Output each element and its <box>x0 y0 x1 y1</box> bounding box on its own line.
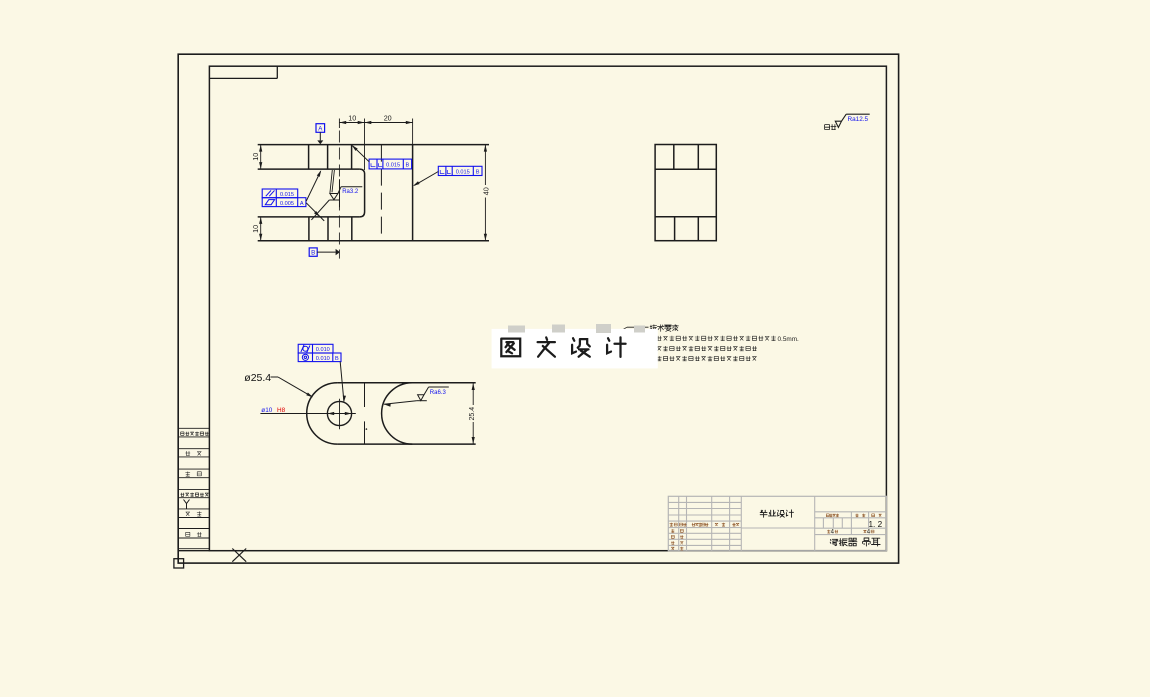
side view top band verticals <box>674 145 699 170</box>
watermark 图文设计 <box>501 337 625 357</box>
bottom view bottom edge <box>337 443 475 445</box>
svg-text:25.4: 25.4 <box>469 407 476 421</box>
label ø25.4 <box>244 372 271 384</box>
title block header 阶段标记 <box>826 514 839 517</box>
svg-text:H8: H8 <box>277 407 286 414</box>
dimension 10 lower left <box>259 217 262 241</box>
left margin Y mark <box>184 500 190 509</box>
FCF2 leader <box>352 145 370 162</box>
feature control frame 3 <box>438 166 482 175</box>
left margin table text row1 <box>181 432 209 436</box>
svg-text:0.010: 0.010 <box>316 356 330 362</box>
FCF3 leader <box>413 172 438 187</box>
hole circle ø10 <box>327 401 351 425</box>
watermark gray fragments <box>508 324 645 333</box>
FCF4 leader <box>340 362 346 403</box>
ø25.4 leader <box>271 377 314 397</box>
front view slot rounded right edge <box>360 169 365 217</box>
surface roughness symbol Ra3.2 <box>329 179 362 207</box>
title block signer row 4 <box>671 547 683 550</box>
front view centerline right <box>380 145 382 241</box>
svg-text:40: 40 <box>481 187 490 195</box>
outer border frame <box>178 54 898 563</box>
front view centerline hole axis <box>338 131 340 259</box>
hole dim arrows <box>327 412 351 415</box>
dimension 25.4 right <box>472 383 475 444</box>
front view lower inner edge <box>258 216 360 218</box>
title block part name 减振器 吊耳 <box>830 538 880 546</box>
tech req line 3 <box>651 356 757 361</box>
front view top edge <box>258 144 489 146</box>
front view top band verticals <box>309 145 352 170</box>
title block header row brown labels <box>670 523 740 526</box>
left margin table text row3 <box>185 472 201 477</box>
grid reference box top-left <box>209 66 277 78</box>
left margin table text row6 <box>186 532 202 536</box>
FCF1 leader up <box>306 170 321 201</box>
front view bottom band verticals <box>309 217 352 241</box>
svg-text:10: 10 <box>251 225 260 233</box>
svg-text:10: 10 <box>348 114 356 123</box>
slot wall line 1 <box>330 170 332 193</box>
tech req title 技术要求 <box>650 325 678 332</box>
left margin table text row2 <box>185 451 201 455</box>
title block signer row 3 <box>671 541 683 544</box>
title block text 毕业设计 <box>760 510 793 518</box>
tech req line 1 <box>651 336 799 343</box>
front view right web vertical <box>412 145 414 241</box>
feature control frame 2 <box>369 159 412 169</box>
datum B leader <box>317 249 340 255</box>
side view bottom band verticals <box>675 217 699 241</box>
title block signer row 2 <box>671 535 683 538</box>
svg-text:B: B <box>406 163 410 169</box>
title block header 比例 <box>872 514 882 517</box>
dimension text 25.4 <box>469 407 476 421</box>
general roughness note 其余 <box>825 124 837 129</box>
Ra12.5 text <box>848 116 869 123</box>
svg-text:B: B <box>476 170 480 176</box>
hole label H8 <box>277 407 286 414</box>
tech req line 2 <box>651 346 758 351</box>
front view bottom edge <box>258 240 489 242</box>
title block 共4张 <box>827 530 838 536</box>
bottom view left arc <box>307 383 338 444</box>
title block grid <box>668 496 886 550</box>
bottom view right arc <box>382 383 413 444</box>
svg-text:Ra3.2: Ra3.2 <box>342 189 359 195</box>
dimension text 10 upper left <box>251 153 260 161</box>
datum B box <box>309 248 317 257</box>
title block scale 1:2 <box>869 520 883 529</box>
svg-text:B: B <box>335 356 339 362</box>
corner centering square bottom-left <box>174 559 184 568</box>
general roughness symbol <box>835 114 869 127</box>
side view horizontal edges <box>655 169 716 217</box>
title block signer row 1 <box>671 529 683 532</box>
Ra6.3 text <box>430 390 447 396</box>
side view outline <box>655 145 716 241</box>
svg-text:0.005: 0.005 <box>280 201 294 207</box>
svg-text:B: B <box>311 250 315 257</box>
surface roughness symbol Ra6.3 <box>384 387 449 407</box>
left margin table text row5 <box>186 511 202 516</box>
svg-text:Ra6.3: Ra6.3 <box>430 390 447 396</box>
inner border bottom extension left <box>178 550 209 552</box>
left margin table text row4 <box>180 493 208 497</box>
Ra3.2 text <box>342 189 359 195</box>
feature control frame parallelism flatness <box>262 189 306 207</box>
svg-text:10: 10 <box>251 153 260 161</box>
hole label ø10 <box>261 407 272 414</box>
bottom view break centerline <box>365 383 368 444</box>
svg-text:Ra12.5: Ra12.5 <box>848 116 869 123</box>
title block 第4张 <box>863 530 874 536</box>
dimension 10 and 20 top <box>339 119 412 171</box>
svg-text:0.015: 0.015 <box>386 163 400 169</box>
svg-text:0.5mm.: 0.5mm. <box>778 336 800 343</box>
hole horizontal centerline and leader <box>260 413 355 415</box>
svg-text:20: 20 <box>384 114 392 123</box>
inner border frame <box>209 66 886 551</box>
watermark white box <box>492 329 658 369</box>
FCF1 leader down <box>306 203 324 221</box>
feature control frame 4 <box>298 344 341 362</box>
fold mark X bottom <box>232 549 246 562</box>
svg-text:0.015: 0.015 <box>280 192 294 198</box>
bottom view top edge <box>337 382 475 384</box>
svg-text:ø25.4: ø25.4 <box>244 372 271 384</box>
slot wall line 2 <box>332 170 334 192</box>
hole vertical centerline <box>339 399 341 430</box>
svg-text:ø10: ø10 <box>261 407 272 414</box>
dimension 10 upper left <box>259 145 262 170</box>
svg-text:0.015: 0.015 <box>456 170 470 176</box>
svg-text:0.010: 0.010 <box>316 347 330 353</box>
dimension text 10 top <box>348 114 356 123</box>
front view upper inner edge <box>258 168 360 170</box>
title block header 重量 <box>855 514 865 517</box>
left margin revision table lines <box>178 428 209 548</box>
datum A box <box>316 124 325 133</box>
tech req leader <box>621 327 649 330</box>
FCF1 companion diagonal <box>311 200 329 220</box>
dimension text 40 <box>481 187 490 195</box>
dimension 40 right <box>484 145 487 241</box>
dimension text 20 top <box>384 114 392 123</box>
dimension text 10 lower left <box>251 225 260 233</box>
svg-text:A: A <box>300 201 304 207</box>
datum A leader <box>317 132 323 144</box>
svg-text:1. 2: 1. 2 <box>869 520 883 529</box>
